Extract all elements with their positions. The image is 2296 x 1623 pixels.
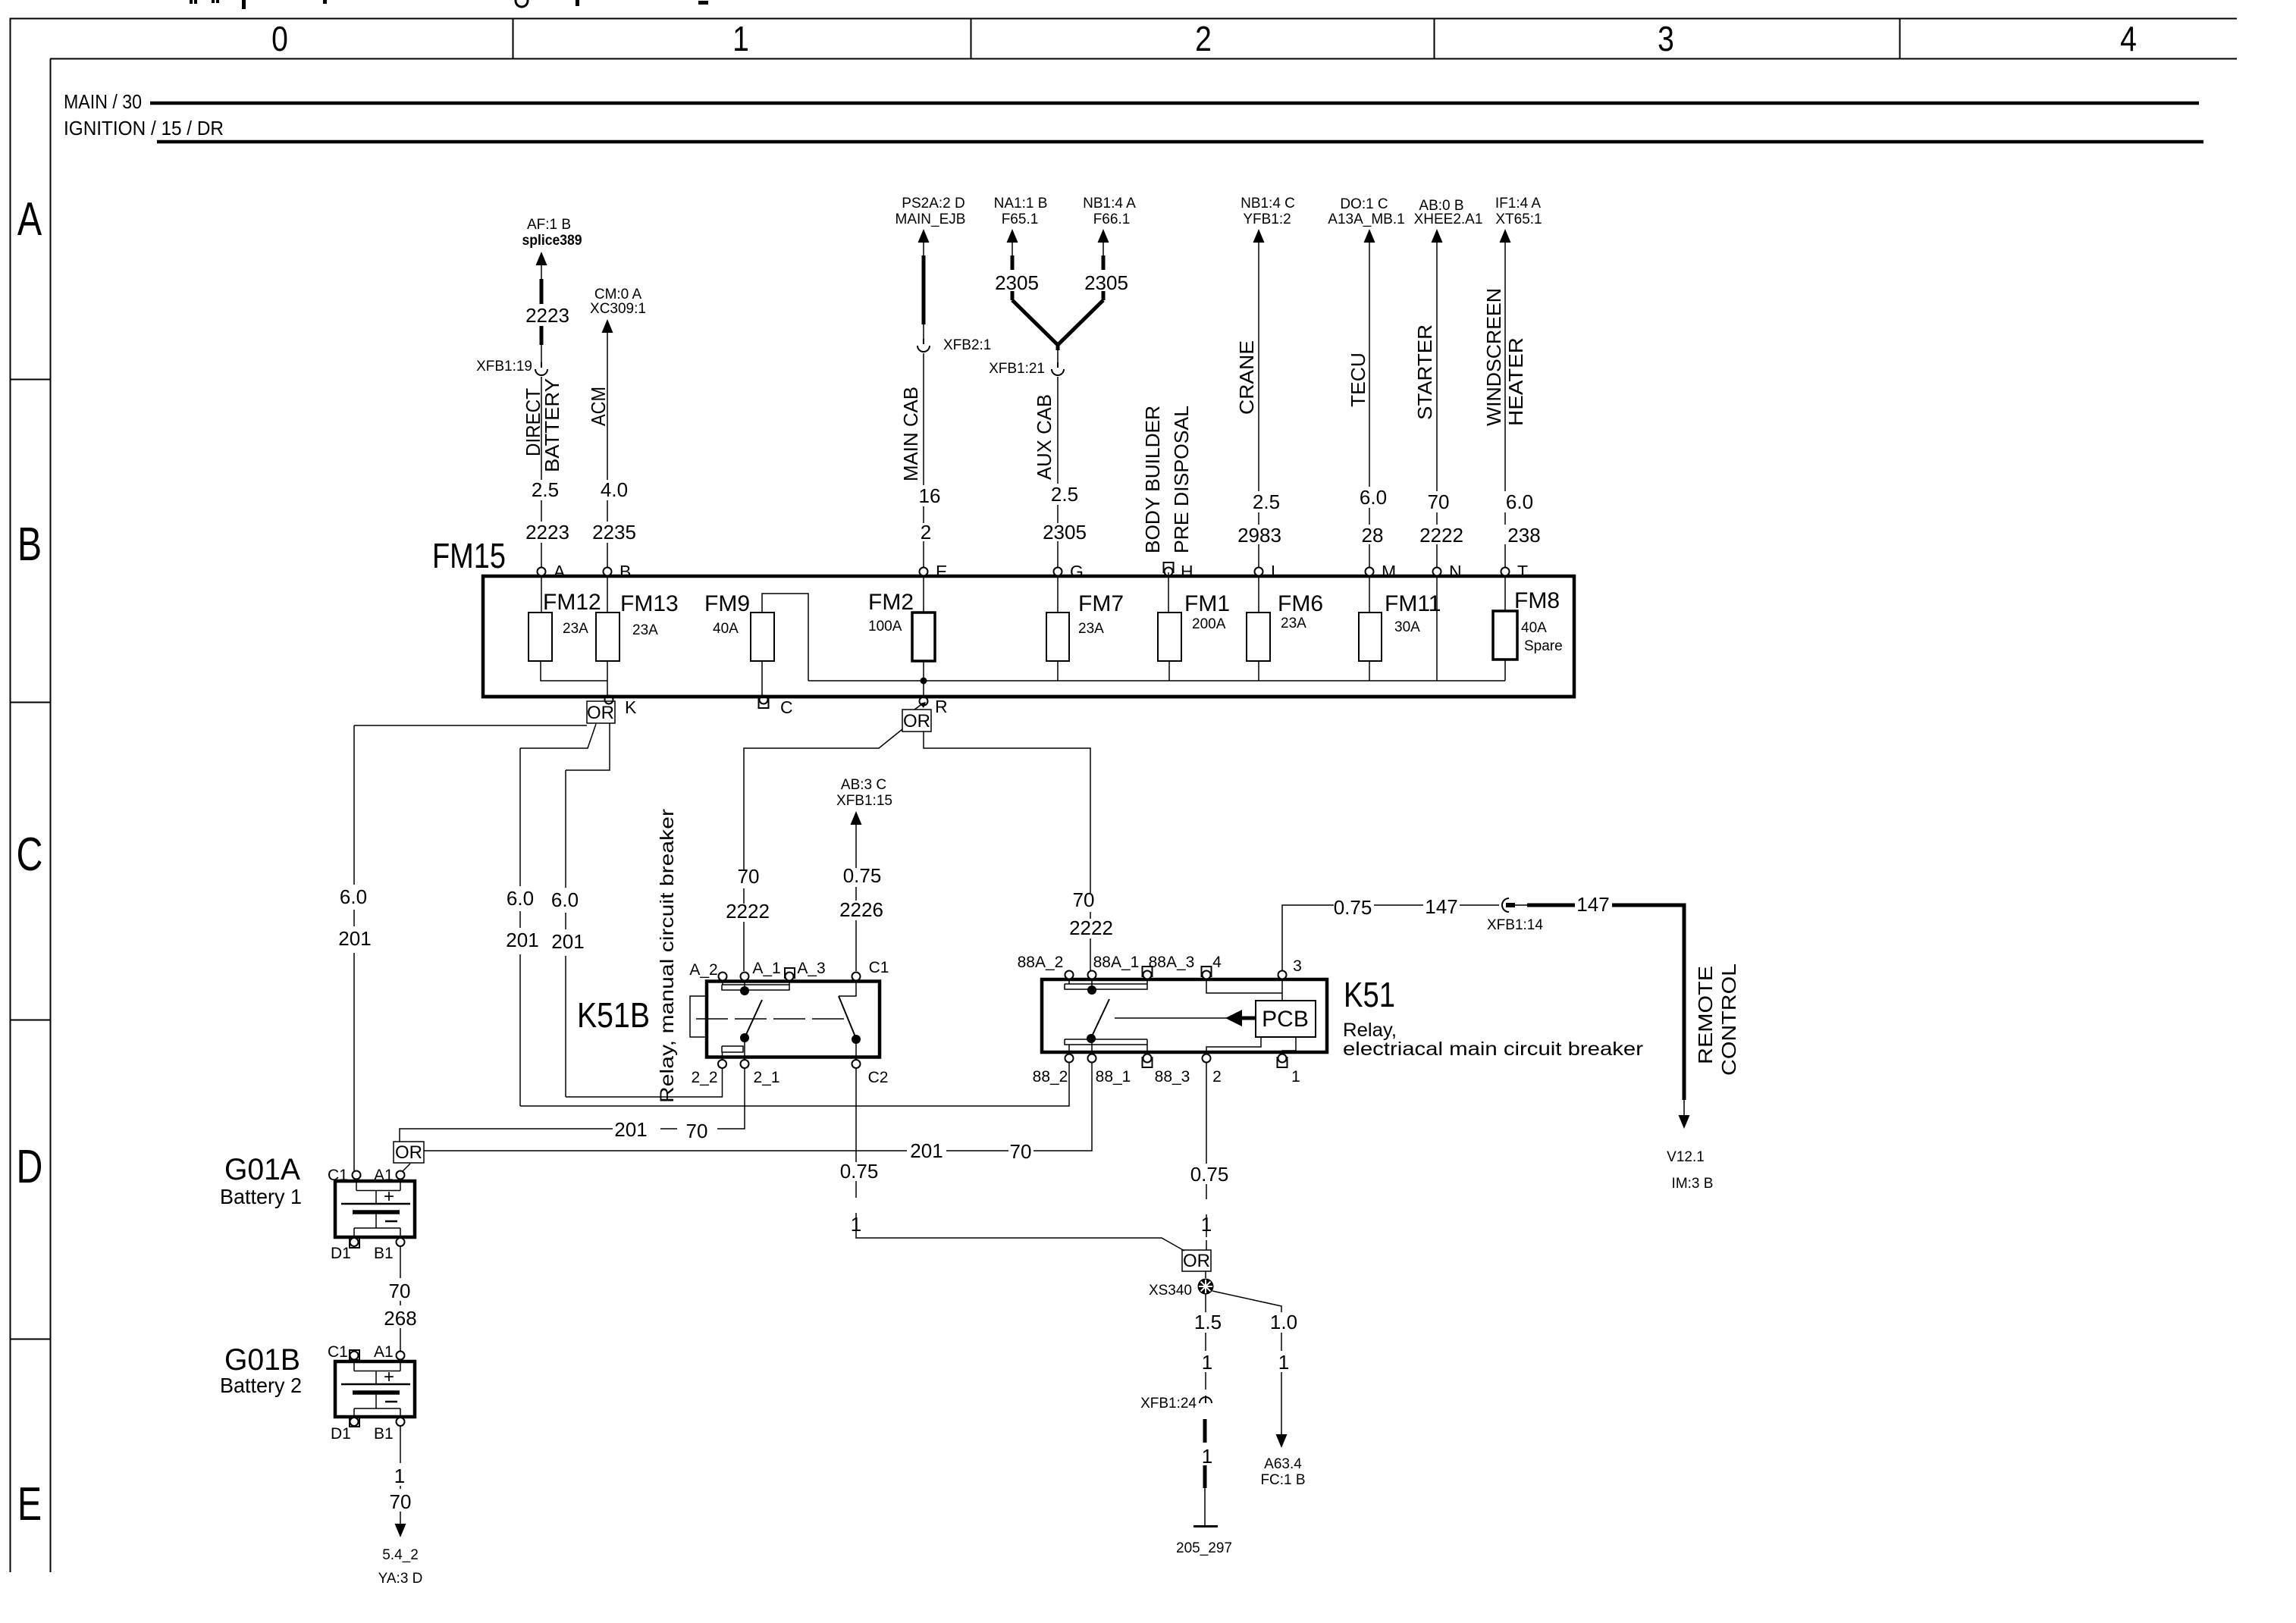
svg-text:A1: A1 xyxy=(374,1167,394,1184)
svg-text:NA1:1 B: NA1:1 B xyxy=(994,196,1048,211)
K51 terminal 2 xyxy=(1203,1054,1211,1063)
svg-text:B: B xyxy=(17,518,42,570)
battery G01B outline xyxy=(335,1361,415,1417)
svg-text:A_3: A_3 xyxy=(797,960,825,977)
frame outer border left xyxy=(10,18,11,1572)
arrow up to XHEE2.A1 xyxy=(1432,229,1443,243)
svg-text:2305: 2305 xyxy=(1043,521,1087,544)
svg-text:1: 1 xyxy=(1201,1213,1212,1236)
wire OR(R) right output to K51 88A_1 xyxy=(924,732,1090,971)
K51B terminal C2 xyxy=(852,1060,861,1068)
svg-text:201: 201 xyxy=(614,1118,647,1141)
connector XFB1:19 xyxy=(535,362,547,375)
connector XFB1:21 xyxy=(1057,350,1059,362)
row dividers xyxy=(11,380,51,1339)
svg-text:FM2: FM2 xyxy=(868,590,914,615)
svg-text:K51: K51 xyxy=(1344,975,1395,1014)
wire B through FM13 to terminal K xyxy=(607,575,608,697)
svg-text:G: G xyxy=(1070,562,1084,581)
K51B switch blade (right) xyxy=(839,996,856,1039)
wire OR(R) left output to K51B A_1 xyxy=(744,729,902,971)
FM15 terminal C (plugged) xyxy=(759,698,769,708)
wire 2305 left branch fat segments xyxy=(1012,242,1013,255)
wire K51 3 up and right (0.75 / 147) xyxy=(1282,905,1499,971)
svg-text:+: + xyxy=(384,1367,394,1387)
svg-text:1: 1 xyxy=(394,1465,405,1487)
svg-text:XT65:1: XT65:1 xyxy=(1495,211,1542,227)
svg-text:4: 4 xyxy=(1212,954,1222,971)
svg-text:2_2: 2_2 xyxy=(691,1069,717,1086)
svg-text:2_1: 2_1 xyxy=(753,1069,779,1086)
svg-text:STARTER: STARTER xyxy=(1413,324,1436,420)
svg-text:A: A xyxy=(554,562,566,581)
svg-text:T: T xyxy=(1517,562,1528,581)
svg-text:6.0: 6.0 xyxy=(340,885,367,908)
svg-text:2223: 2223 xyxy=(525,304,569,327)
svg-text:28: 28 xyxy=(1362,524,1384,547)
K51 terminal 4 internal link to 3 xyxy=(1206,979,1282,993)
svg-text:A_1: A_1 xyxy=(752,960,780,977)
wire ACM down to fuse terminal B xyxy=(607,333,608,567)
svg-text:FM12: FM12 xyxy=(543,590,601,615)
svg-text:70: 70 xyxy=(738,865,760,888)
svg-text:WINDSCREEN: WINDSCREEN xyxy=(1482,288,1505,426)
svg-text:23A: 23A xyxy=(632,622,658,638)
K51 terminal 88A_1 xyxy=(1088,971,1096,979)
wire TECU down to fuse terminal M xyxy=(1369,242,1370,567)
svg-text:2.5: 2.5 xyxy=(1253,490,1280,513)
svg-text:23A: 23A xyxy=(1281,616,1306,631)
svg-text:Battery 1: Battery 1 xyxy=(220,1185,302,1208)
connector XFB1:14 xyxy=(1502,898,1509,912)
svg-text:A13A_MB.1: A13A_MB.1 xyxy=(1328,211,1404,227)
svg-text:C1: C1 xyxy=(869,959,889,976)
svg-text:YFB1:2: YFB1:2 xyxy=(1243,211,1291,227)
svg-text:88_1: 88_1 xyxy=(1096,1068,1131,1086)
wire G01A B1 to G01B A1 (70 / 268) xyxy=(400,1246,401,1351)
wire T through FM8 to bus xyxy=(1504,575,1506,681)
wire A to FM12 xyxy=(541,575,542,613)
svg-text:0: 0 xyxy=(271,20,288,59)
svg-text:1: 1 xyxy=(1291,1068,1300,1086)
svg-text:147: 147 xyxy=(1576,893,1609,916)
svg-text:CM:0 A: CM:0 A xyxy=(594,287,642,302)
svg-text:0.75: 0.75 xyxy=(1334,896,1372,919)
arrow up to MAIN_EJB xyxy=(918,229,930,243)
wire XS340 right branch (1.0 / 1) to A63.4 xyxy=(1212,1291,1281,1434)
G01A internal plates xyxy=(356,1179,400,1204)
svg-text:electriacal main circuit break: electriacal main circuit breaker xyxy=(1343,1039,1643,1060)
FM15 terminal R xyxy=(920,697,928,706)
svg-text:201: 201 xyxy=(551,930,584,953)
K51B internal bottom bracket xyxy=(722,1038,745,1060)
svg-text:K: K xyxy=(625,697,637,717)
svg-text:2983: 2983 xyxy=(1237,524,1281,547)
K51B terminal 2_2 xyxy=(718,1060,726,1068)
svg-text:OR: OR xyxy=(395,1142,422,1163)
svg-text:3: 3 xyxy=(1658,20,1674,59)
svg-text:B: B xyxy=(619,562,631,581)
header column dividers xyxy=(513,18,1900,59)
FM15 terminal M xyxy=(1366,562,1397,581)
K51 terminal 1 internal link to PCB xyxy=(1282,1037,1296,1054)
wire MAIN CAB fat segment xyxy=(923,242,924,255)
svg-text:40A: 40A xyxy=(713,621,739,637)
svg-text:MAIN / 30: MAIN / 30 xyxy=(64,90,142,113)
svg-text:2226: 2226 xyxy=(839,898,883,921)
arrow up to XFB1:15 xyxy=(851,811,862,825)
wire M through FM11 to bus xyxy=(1369,575,1370,681)
svg-text:IM:3 B: IM:3 B xyxy=(1672,1176,1714,1192)
fuse FM11 xyxy=(1359,591,1441,661)
svg-text:200A: 200A xyxy=(1192,616,1226,632)
svg-text:splice389: splice389 xyxy=(522,233,582,249)
K51B mechanical link (dashed) xyxy=(696,1018,847,1020)
svg-text:XFB2:1: XFB2:1 xyxy=(943,337,991,353)
svg-text:0.75: 0.75 xyxy=(1190,1163,1229,1186)
svg-text:D1: D1 xyxy=(331,1425,351,1443)
svg-text:2223: 2223 xyxy=(525,521,569,544)
arrow up to AF:1 B xyxy=(536,252,547,265)
svg-text:PCB: PCB xyxy=(1262,1007,1309,1032)
svg-text:B1: B1 xyxy=(374,1245,394,1262)
svg-text:PS2A:2 D: PS2A:2 D xyxy=(902,196,965,211)
wire CRANE down to fuse terminal L xyxy=(1258,242,1259,567)
svg-text:H: H xyxy=(1181,562,1193,581)
fuse FM9 xyxy=(704,591,774,661)
V junction of 2305 branches xyxy=(1012,300,1103,350)
svg-text:6.0: 6.0 xyxy=(507,887,534,910)
svg-text:1: 1 xyxy=(1202,1351,1212,1374)
svg-text:FM11: FM11 xyxy=(1385,591,1441,616)
wire STARTER down to fuse terminal N xyxy=(1436,242,1438,567)
svg-text:V12.1: V12.1 xyxy=(1667,1149,1705,1165)
svg-text:F65.1: F65.1 xyxy=(1002,211,1039,227)
svg-text:BODY BUILDER: BODY BUILDER xyxy=(1141,406,1164,553)
svg-text:FC:1 B: FC:1 B xyxy=(1260,1472,1305,1488)
svg-text:1: 1 xyxy=(1202,1445,1212,1468)
wire XS340 down (1.5 / 1) to connector XFB1:24 xyxy=(1205,1294,1206,1390)
svg-text:201: 201 xyxy=(910,1139,943,1162)
svg-text:4.0: 4.0 xyxy=(601,478,628,501)
arrow down to YA:3 D xyxy=(395,1524,406,1537)
wire 2223 fat segment lower xyxy=(540,326,544,345)
wire from OR(K) bottom to 2_2 column xyxy=(566,723,610,770)
svg-text:AB:3 C: AB:3 C xyxy=(841,777,886,793)
svg-text:5.4_2: 5.4_2 xyxy=(382,1547,419,1563)
svg-text:88_3: 88_3 xyxy=(1155,1068,1190,1086)
wire G01B B1 down (1 / 70) to YA:3 D xyxy=(400,1426,401,1524)
K51 terminal 88_3 (plugged) xyxy=(1143,1057,1153,1067)
svg-text:88A_3: 88A_3 xyxy=(1149,954,1195,971)
FM15 terminal T xyxy=(1501,562,1529,581)
svg-text:C1: C1 xyxy=(328,1343,348,1361)
battery G01A outline xyxy=(335,1181,415,1237)
svg-text:2235: 2235 xyxy=(592,521,636,544)
svg-text:IGNITION / 15 / DR: IGNITION / 15 / DR xyxy=(64,117,224,139)
wire K51 2 down to OR at XS340 (0.75 / 1) xyxy=(1206,1062,1207,1250)
svg-text:2: 2 xyxy=(1195,20,1212,59)
svg-text:XFB1:21: XFB1:21 xyxy=(989,361,1045,377)
wire DIRECT BATTERY down to fuse terminal A xyxy=(541,377,542,567)
K51 terminal 3 xyxy=(1278,971,1287,979)
K51 terminal 88A_3 (plugged) xyxy=(1143,967,1153,976)
svg-text:MAIN_EJB: MAIN_EJB xyxy=(896,211,966,227)
wire K51B 2_2 to feeder xyxy=(566,1068,723,1097)
svg-text:FM15: FM15 xyxy=(432,536,506,575)
arrow up to XT65:1 xyxy=(1500,229,1511,243)
wire to connector XFB2:1 xyxy=(923,324,924,339)
svg-text:A: A xyxy=(17,193,42,245)
svg-text:B1: B1 xyxy=(374,1425,394,1443)
svg-text:YA:3 D: YA:3 D xyxy=(378,1571,423,1587)
wire N to bus xyxy=(1436,575,1438,681)
svg-text:3: 3 xyxy=(1293,957,1302,975)
K51B terminal C1 xyxy=(852,973,861,981)
fuse FM12 xyxy=(529,590,601,661)
wire 2305 right branch fat segments xyxy=(1103,242,1104,255)
OR merge symbol at XS340 xyxy=(1182,1250,1211,1271)
arrow down to V12.1 xyxy=(1683,1100,1685,1116)
svg-text:Relay,: Relay, xyxy=(1343,1020,1397,1041)
svg-text:D: D xyxy=(17,1140,43,1192)
svg-text:2: 2 xyxy=(1212,1068,1222,1086)
svg-text:88A_1: 88A_1 xyxy=(1093,954,1140,971)
svg-text:AUX CAB: AUX CAB xyxy=(1033,394,1055,480)
svg-text:88_2: 88_2 xyxy=(1033,1068,1068,1086)
K51 terminal 4 (plugged) xyxy=(1202,967,1212,976)
svg-text:TECU: TECU xyxy=(1347,352,1369,407)
K51 internal top busbar xyxy=(1065,979,1147,991)
fuse FM1 xyxy=(1158,591,1230,661)
svg-text:2305: 2305 xyxy=(1084,271,1128,294)
wire G through FM7 to bus xyxy=(1057,575,1059,681)
svg-text:238: 238 xyxy=(1507,524,1540,547)
K51B manual actuator bracket xyxy=(690,996,706,1037)
svg-text:XFB1:15: XFB1:15 xyxy=(836,793,892,809)
FM15 terminal K xyxy=(605,696,613,704)
K51B terminal 2_1 xyxy=(741,1060,749,1068)
svg-text:BATTERY: BATTERY xyxy=(541,378,563,472)
wire FM9 bottom to terminal C xyxy=(761,661,763,696)
svg-text:F66.1: F66.1 xyxy=(1093,211,1131,227)
svg-text:0.75: 0.75 xyxy=(840,1160,879,1183)
svg-text:DO:1 C: DO:1 C xyxy=(1340,196,1388,212)
OR merge symbol above battery G01A xyxy=(394,1142,424,1163)
svg-text:268: 268 xyxy=(384,1307,416,1330)
splice XS340 xyxy=(1205,1271,1206,1278)
svg-text:Battery 2: Battery 2 xyxy=(220,1374,302,1397)
K51 terminal 3 stub into PCB xyxy=(1281,979,1283,1001)
wire 147 fat segment to REMOTE CONTROL xyxy=(1515,904,1527,906)
wire K51B C2 down to OR at XS340 (0.75 / 1) xyxy=(855,1068,857,1236)
G01B terminal C1 (plugged) xyxy=(350,1350,359,1360)
OR(R) input marker arrow xyxy=(914,703,923,710)
FM15 terminal B xyxy=(604,562,632,581)
wire FM9 top to internal bus xyxy=(762,594,808,681)
K51B terminal A_2 xyxy=(719,973,727,981)
svg-text:201: 201 xyxy=(506,929,538,951)
K51 terminal 88A_2 xyxy=(1065,971,1074,979)
arrow up to XC309:1 xyxy=(602,319,613,333)
svg-text:G01A: G01A xyxy=(224,1153,300,1186)
wire 201 feeder to battery C1 xyxy=(353,725,355,1174)
svg-text:AF:1 B: AF:1 B xyxy=(527,217,571,233)
svg-text:XFB1:14: XFB1:14 xyxy=(1487,917,1543,933)
K51 internal bottom busbar xyxy=(1065,1039,1147,1054)
svg-text:88A_2: 88A_2 xyxy=(1018,954,1064,971)
svg-text:6.0: 6.0 xyxy=(1506,490,1533,513)
svg-text:K51B: K51B xyxy=(577,995,650,1035)
svg-text:CONTROL: CONTROL xyxy=(1717,963,1740,1076)
wire down to connector XFB1:19 xyxy=(541,345,542,362)
svg-text:1.0: 1.0 xyxy=(1270,1311,1297,1333)
wire DIRECT BATTERY (2223) arrow stem xyxy=(541,265,542,279)
wire WINDSCREEN HEATER down to fuse terminal T xyxy=(1504,242,1506,567)
svg-text:2222: 2222 xyxy=(726,900,770,923)
fuse box FM15 outline xyxy=(483,576,1574,697)
svg-text:2: 2 xyxy=(921,521,931,544)
relay K51 outline xyxy=(1042,979,1327,1052)
svg-text:OR: OR xyxy=(587,703,614,723)
svg-text:CRANE: CRANE xyxy=(1235,340,1258,415)
arrow up to F65.1 xyxy=(1007,229,1018,243)
arrow up to A13A_MB.1 xyxy=(1364,229,1375,243)
G01B internal plates xyxy=(354,1359,400,1384)
svg-text:A63.4: A63.4 xyxy=(1264,1456,1302,1472)
OR merge symbol below R xyxy=(902,710,931,732)
svg-text:C2: C2 xyxy=(868,1069,889,1086)
svg-text:6.0: 6.0 xyxy=(551,888,579,911)
svg-text:E: E xyxy=(936,562,947,581)
fuse FM13 xyxy=(596,591,679,661)
svg-text:IF1:4 A: IF1:4 A xyxy=(1495,196,1542,211)
FM15 terminal E xyxy=(920,562,948,581)
svg-text:G01B: G01B xyxy=(224,1343,300,1377)
K51B internal junction dot (A_1) xyxy=(740,986,749,995)
svg-text:2.5: 2.5 xyxy=(532,478,559,501)
svg-text:FM1: FM1 xyxy=(1184,591,1230,616)
connector XFB1:24 xyxy=(1200,1396,1212,1403)
K51B C2 stub xyxy=(855,1039,857,1060)
svg-text:FM9: FM9 xyxy=(704,591,750,616)
svg-text:C: C xyxy=(17,828,43,880)
svg-text:1: 1 xyxy=(732,20,749,59)
wire H through FM1 to bus xyxy=(1168,572,1169,681)
svg-text:NB1:4 A: NB1:4 A xyxy=(1083,196,1136,211)
wire OR to A1 xyxy=(400,1164,410,1173)
wire K51B 2_1 down to OR at battery (201 / 70) xyxy=(400,1068,745,1142)
svg-text:2.5: 2.5 xyxy=(1051,483,1078,506)
K51B switch blade (left) xyxy=(745,1000,762,1038)
wire 2226 from K51B C1 up xyxy=(855,825,857,971)
svg-text:1: 1 xyxy=(851,1213,861,1236)
svg-text:0.75: 0.75 xyxy=(843,864,882,887)
G01A terminal B1 xyxy=(397,1238,405,1246)
svg-text:6.0: 6.0 xyxy=(1360,486,1387,509)
svg-text:+: + xyxy=(384,1186,394,1207)
FM15 terminal A xyxy=(538,562,566,581)
svg-text:205_297: 205_297 xyxy=(1176,1540,1232,1556)
svg-text:FM13: FM13 xyxy=(620,591,679,616)
svg-text:147: 147 xyxy=(1425,895,1457,918)
svg-text:XS340: XS340 xyxy=(1149,1283,1192,1299)
svg-text:100A: 100A xyxy=(868,619,902,634)
svg-text:2222: 2222 xyxy=(1069,916,1113,939)
svg-text:FM6: FM6 xyxy=(1278,591,1323,616)
wire K51 88_2 to feeder xyxy=(520,1062,1069,1106)
svg-text:XHEE2.A1: XHEE2.A1 xyxy=(1414,211,1483,227)
wire FM12 bottom to FM13 wire xyxy=(541,661,607,681)
K51B lower contact dot (left) xyxy=(740,1033,749,1042)
net IGNITION / 15 / DR bus line xyxy=(157,140,2203,144)
G01B terminal B1 xyxy=(397,1418,405,1426)
fuse FM8 xyxy=(1493,588,1560,660)
svg-text:D1: D1 xyxy=(331,1245,351,1262)
svg-text:XFB1:24: XFB1:24 xyxy=(1140,1396,1197,1412)
FM15 bottom edge over terminals xyxy=(481,695,1576,699)
svg-text:ACM: ACM xyxy=(587,387,610,426)
svg-text:Relay, manual circuit breaker: Relay, manual circuit breaker xyxy=(657,809,678,1103)
PCB module box xyxy=(1256,1001,1316,1037)
svg-text:M: M xyxy=(1382,562,1396,581)
svg-text:23A: 23A xyxy=(563,621,588,637)
svg-text:1: 1 xyxy=(1278,1351,1289,1374)
svg-text:N: N xyxy=(1449,562,1462,581)
G01A terminal A1 xyxy=(397,1171,405,1180)
svg-text:NB1:4 C: NB1:4 C xyxy=(1241,196,1295,211)
svg-text:A1: A1 xyxy=(374,1343,394,1361)
svg-text:70: 70 xyxy=(390,1490,412,1513)
svg-text:Spare: Spare xyxy=(1524,638,1563,654)
svg-text:E: E xyxy=(17,1477,42,1530)
G01A terminal D1 (plugged) xyxy=(350,1238,359,1248)
svg-text:A_2: A_2 xyxy=(689,961,717,979)
G01A terminal C1 xyxy=(353,1171,361,1180)
svg-text:L: L xyxy=(1271,562,1281,581)
svg-text:MAIN CAB: MAIN CAB xyxy=(899,387,922,481)
svg-text:OR: OR xyxy=(1183,1251,1210,1271)
svg-text:30A: 30A xyxy=(1394,619,1420,635)
K51 terminal 88_1 xyxy=(1088,1054,1096,1063)
wire L through FM6 to bus xyxy=(1258,575,1259,681)
connector XFB2:1 xyxy=(917,339,930,352)
svg-text:70: 70 xyxy=(1010,1140,1032,1163)
K51B lower contact dot (right) xyxy=(852,1035,861,1044)
K51 terminal 2 internal link to PCB xyxy=(1206,1037,1261,1054)
FM15 terminal L xyxy=(1255,562,1281,581)
fuse FM7 xyxy=(1046,591,1124,661)
svg-text:HEATER: HEATER xyxy=(1504,337,1527,426)
svg-text:REMOTE: REMOTE xyxy=(1694,966,1717,1064)
svg-text:FM8: FM8 xyxy=(1514,588,1560,613)
svg-text:XC309:1: XC309:1 xyxy=(590,301,646,317)
svg-text:2222: 2222 xyxy=(1419,524,1463,547)
wire from OR(K) diagonal to 88_2 column xyxy=(520,724,596,748)
G01B terminal D1 (plugged) xyxy=(350,1417,359,1427)
net MAIN / 30 bus line xyxy=(150,102,2199,105)
svg-text:XFB1:19: XFB1:19 xyxy=(476,359,532,374)
svg-text:C1: C1 xyxy=(328,1167,348,1184)
wire E through FM2 to junction xyxy=(923,575,924,697)
FM15 terminal G xyxy=(1054,562,1084,581)
svg-text:R: R xyxy=(935,697,948,716)
svg-text:1.5: 1.5 xyxy=(1194,1311,1222,1333)
arrow up to YFB1:2 xyxy=(1253,229,1265,243)
K51 terminal 1 (plugged) xyxy=(1278,1057,1288,1067)
header band bottom line xyxy=(50,58,2237,60)
svg-text:16: 16 xyxy=(919,484,941,507)
